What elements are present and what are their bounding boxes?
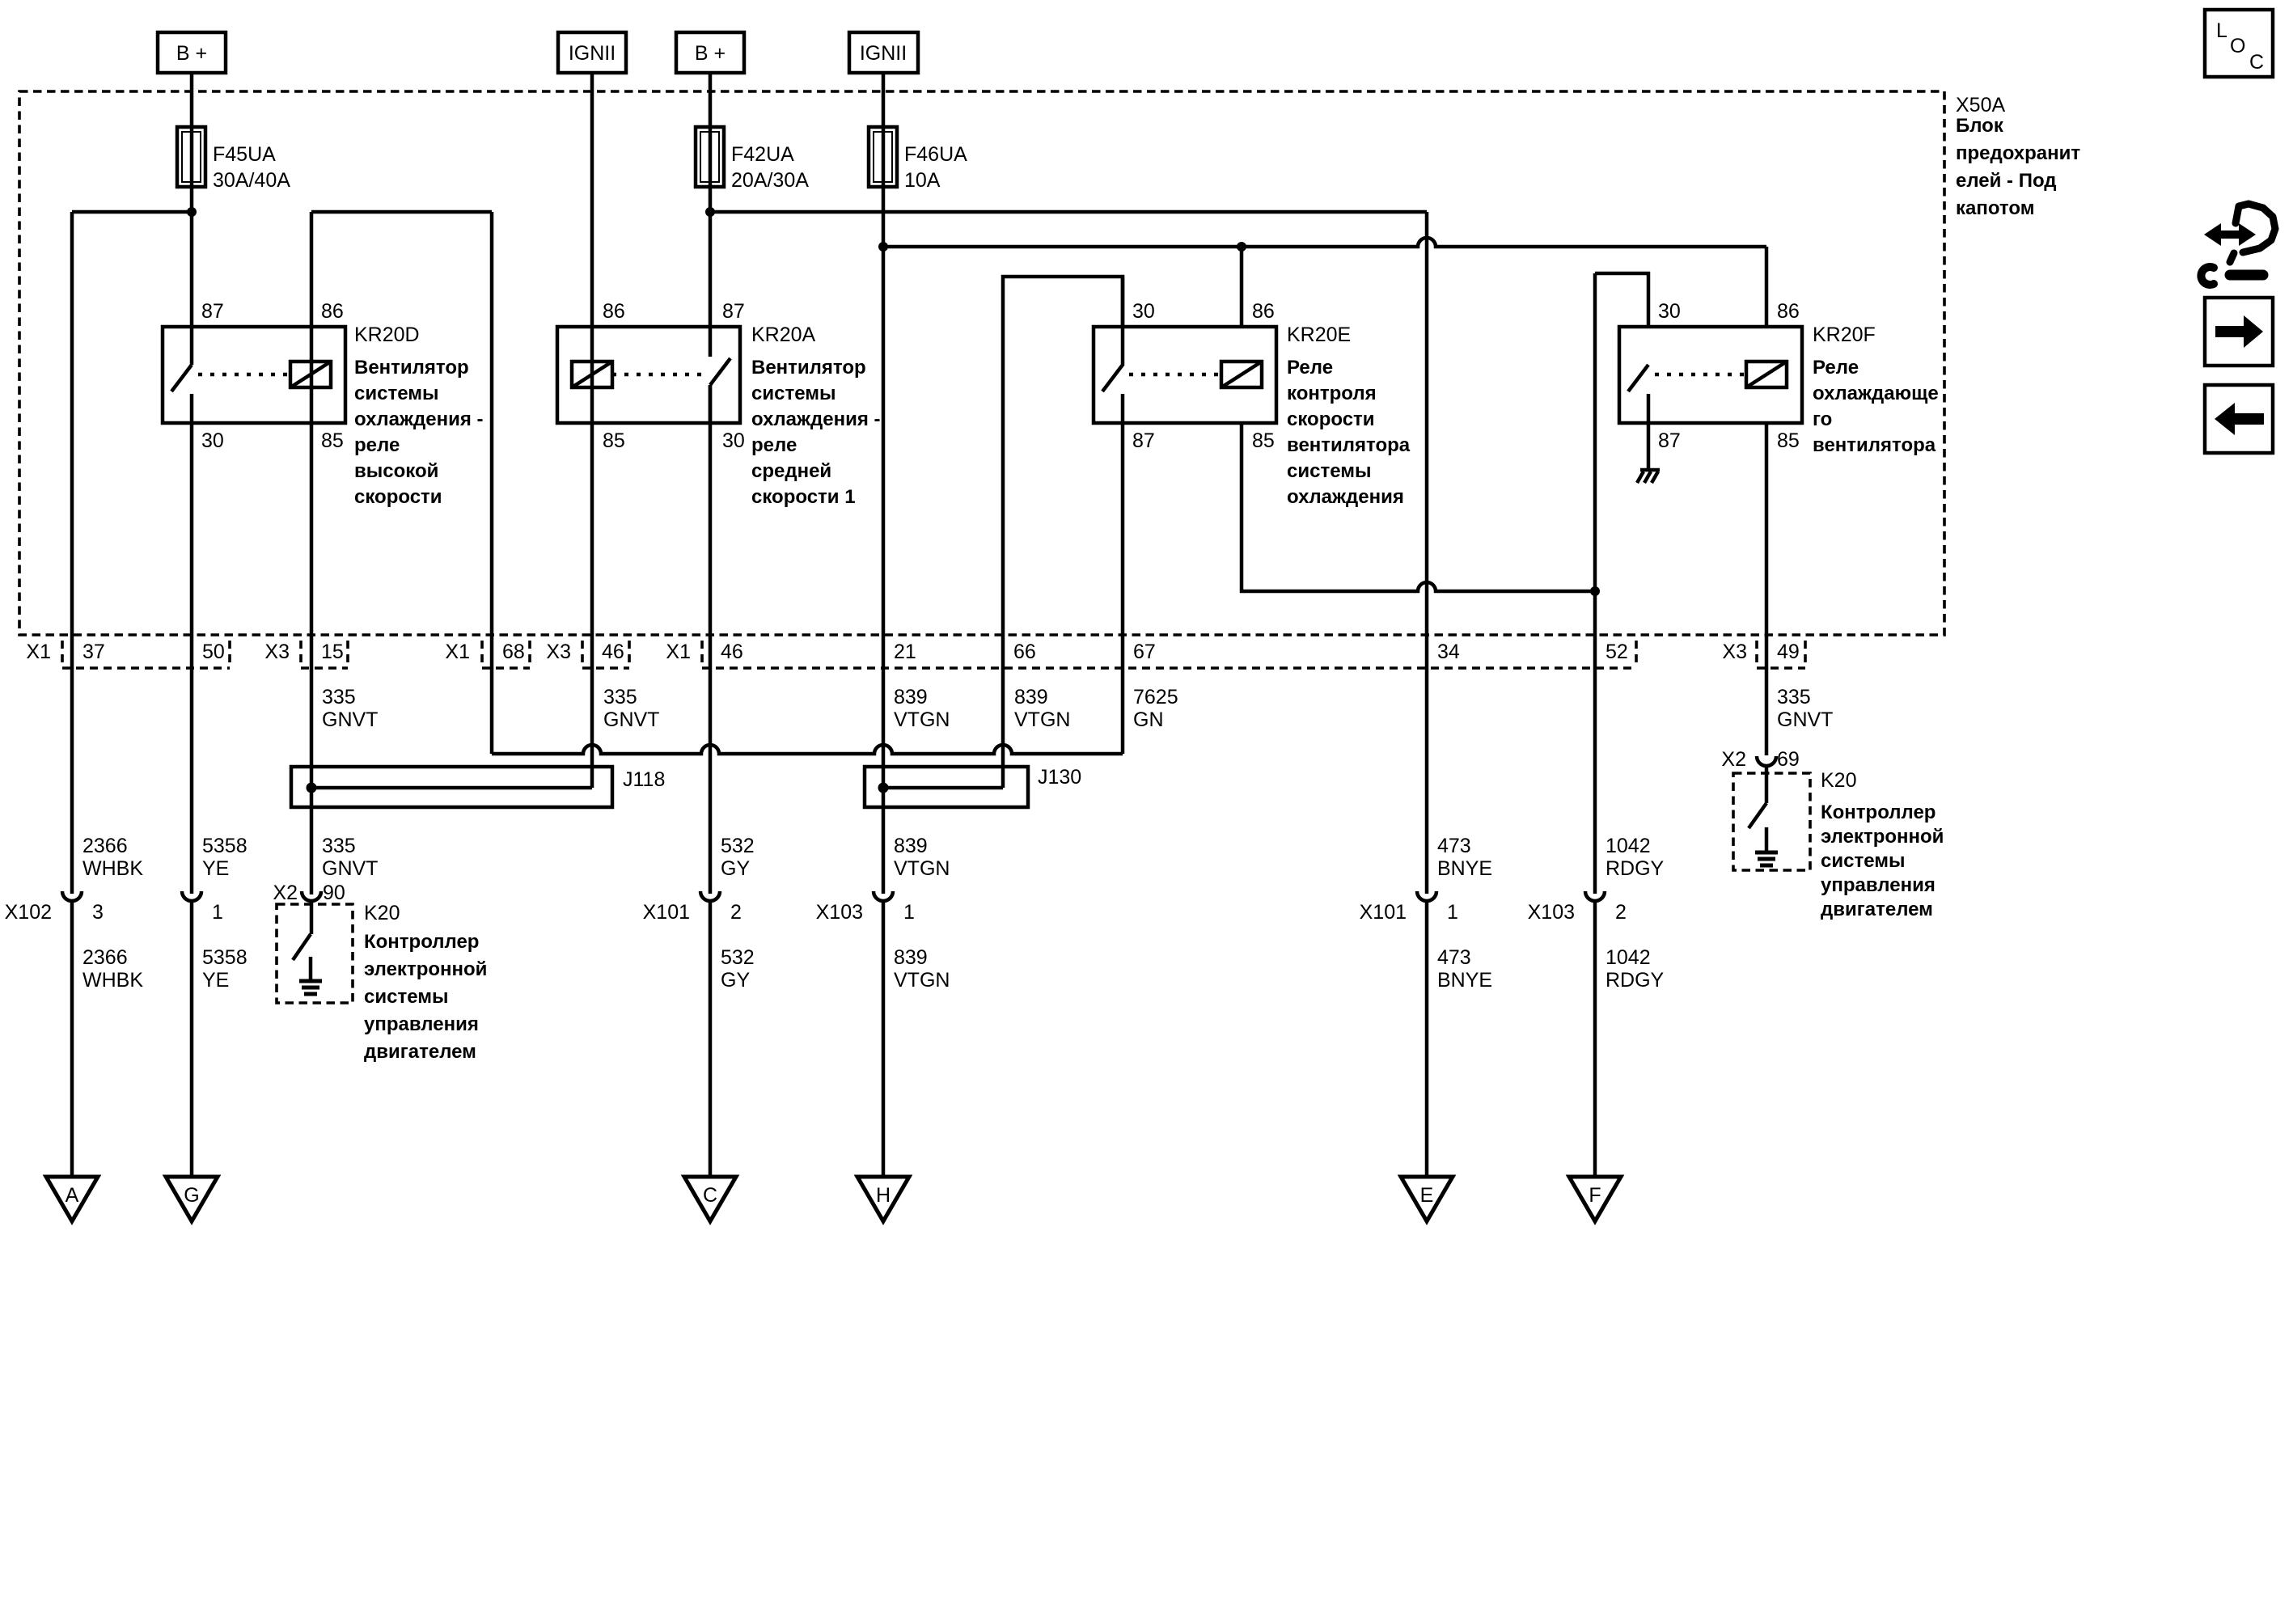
wire J130 inner riser	[1001, 767, 1005, 788]
wire to triangle C	[709, 901, 713, 1178]
svg-text:335: 335	[1777, 686, 1811, 708]
svg-text:GY: GY	[721, 969, 750, 992]
svg-text:YE: YE	[202, 857, 229, 880]
svg-text:50: 50	[202, 641, 225, 663]
svg-text:X102: X102	[5, 901, 52, 924]
triangle E	[1401, 1177, 1453, 1221]
wire IGNII2 drop	[882, 73, 886, 767]
wire H drop	[882, 767, 886, 894]
junction dot wire 52	[1590, 586, 1600, 596]
junction dot F42UA output	[705, 207, 715, 217]
svg-text:Контроллер: Контроллер	[364, 931, 479, 953]
svg-text:473: 473	[1437, 835, 1471, 857]
svg-text:скорости: скорости	[1287, 408, 1375, 430]
svg-text:46: 46	[721, 641, 743, 663]
svg-text:X101: X101	[643, 901, 690, 924]
svg-text:66: 66	[1013, 641, 1036, 663]
svg-text:473: 473	[1437, 946, 1471, 969]
wire KR20D 86 riser	[310, 212, 314, 327]
junction dot KR20E coil tap	[1237, 242, 1246, 252]
wire to triangle H	[882, 901, 886, 1178]
svg-text:X50A: X50A	[1956, 94, 2005, 116]
connector bracket X3 46	[582, 641, 629, 668]
ground K20 right	[1755, 827, 1778, 865]
relay KR20E actuator dotted	[1129, 373, 1221, 377]
svg-text:RDGY: RDGY	[1606, 969, 1665, 992]
svg-text:15: 15	[321, 641, 344, 663]
wire to triangle E	[1425, 901, 1429, 1178]
svg-text:двигателем: двигателем	[364, 1041, 476, 1063]
svg-text:системы: системы	[1821, 850, 1905, 872]
wire KR20D-86 to X1-68 feed	[311, 210, 492, 214]
label K20 left	[364, 902, 487, 1063]
svg-text:KR20A: KR20A	[751, 324, 816, 346]
icon arrow right box	[2205, 298, 2273, 366]
svg-text:O: O	[2230, 35, 2245, 57]
bottom connector labels	[5, 901, 1627, 924]
svg-text:F45UA: F45UA	[213, 143, 276, 166]
svg-text:69: 69	[1777, 748, 1800, 771]
relay KR20D pins	[201, 300, 344, 452]
ground KR20F-87	[1637, 470, 1660, 483]
svg-text:капотом: капотом	[1956, 197, 2034, 219]
wire KR20F coil 86 drop	[1765, 247, 1769, 327]
label KR20D	[354, 324, 484, 508]
wire to triangle G	[190, 901, 194, 1178]
triangle A	[46, 1177, 98, 1221]
wire KR20A-85 drop to J118	[590, 327, 594, 788]
icon arrow left box	[2205, 385, 2273, 453]
svg-text:системы: системы	[364, 986, 448, 1008]
connector cup X103-1	[874, 891, 893, 901]
wire branch to X1-37	[72, 210, 192, 214]
svg-text:GY: GY	[721, 857, 750, 880]
svg-text:C: C	[703, 1184, 717, 1207]
svg-text:J130: J130	[1038, 766, 1081, 789]
svg-text:30A/40A: 30A/40A	[213, 169, 290, 192]
loc box	[2205, 10, 2273, 77]
svg-text:Реле: Реле	[1287, 357, 1333, 379]
svg-text:1: 1	[212, 901, 223, 924]
wire KR20F-30 loop	[1595, 273, 1648, 327]
svg-text:WHBK: WHBK	[82, 857, 143, 880]
svg-text:Реле: Реле	[1813, 357, 1859, 379]
svg-text:86: 86	[603, 300, 625, 323]
svg-text:X1: X1	[445, 641, 470, 663]
svg-text:1042: 1042	[1606, 835, 1651, 857]
connector cup X2-69	[1757, 756, 1776, 766]
wire KR20E coil 86 riser	[1240, 247, 1244, 327]
connector bracket X3 15	[301, 641, 348, 668]
wire B+2 to KR20A pin 87	[709, 73, 713, 357]
svg-text:системы: системы	[1287, 460, 1371, 482]
connector cup X2-90	[302, 891, 321, 901]
wire line B IGNII2 net with hop	[883, 238, 1766, 247]
svg-text:охлаждения: охлаждения	[1287, 486, 1404, 508]
node B+ #2	[676, 32, 744, 73]
wire to triangle F	[1593, 901, 1597, 1178]
splice J130	[865, 766, 1081, 807]
svg-text:го: го	[1813, 408, 1832, 430]
svg-text:RDGY: RDGY	[1606, 857, 1665, 880]
svg-text:высокой: высокой	[354, 460, 438, 482]
svg-text:елей - Под: елей - Под	[1956, 170, 2057, 192]
svg-text:30: 30	[201, 429, 224, 452]
junction dot F45UA output	[187, 207, 197, 217]
svg-text:68: 68	[502, 641, 525, 663]
svg-text:KR20F: KR20F	[1813, 324, 1876, 346]
svg-text:GNVT: GNVT	[603, 708, 659, 731]
svg-text:электронной: электронной	[364, 958, 487, 980]
svg-text:839: 839	[1014, 686, 1048, 708]
svg-text:контроля: контроля	[1287, 383, 1377, 404]
label KR20F	[1813, 324, 1939, 456]
triangle C	[684, 1177, 736, 1221]
svg-text:X3: X3	[1722, 641, 1747, 663]
svg-text:VTGN: VTGN	[894, 857, 950, 880]
svg-text:46: 46	[602, 641, 624, 663]
svg-text:2366: 2366	[82, 835, 128, 857]
svg-text:86: 86	[1252, 300, 1275, 323]
svg-text:30: 30	[722, 429, 745, 452]
ecm K20 left dashed box	[277, 904, 353, 1003]
ecm K20 left switch	[293, 934, 311, 960]
svg-text:J118: J118	[623, 768, 665, 791]
svg-text:30: 30	[1658, 300, 1681, 323]
relay KR20F actuator dotted	[1655, 373, 1746, 377]
connector bracket X1 68	[482, 641, 530, 668]
fuse F46UA	[869, 127, 967, 192]
relay KR20A switch	[710, 358, 730, 423]
relay KR20E coil	[1221, 362, 1262, 387]
connector cup X101-1	[1417, 891, 1436, 901]
svg-text:1: 1	[903, 901, 915, 924]
svg-text:X2: X2	[1721, 748, 1746, 771]
svg-text:IGNII: IGNII	[569, 42, 616, 65]
wire 34 drop E	[1425, 212, 1429, 894]
svg-text:Контроллер: Контроллер	[1821, 801, 1936, 823]
svg-text:X1: X1	[26, 641, 51, 663]
relay KR20D switch	[171, 365, 192, 423]
svg-text:85: 85	[1252, 429, 1275, 452]
svg-text:C: C	[2249, 51, 2264, 74]
ground K20 left	[299, 957, 322, 994]
svg-text:86: 86	[321, 300, 344, 323]
svg-text:двигателем: двигателем	[1821, 899, 1933, 920]
svg-text:X3: X3	[546, 641, 571, 663]
svg-text:21: 21	[894, 641, 916, 663]
svg-text:52: 52	[1606, 641, 1628, 663]
triangle H	[857, 1177, 909, 1221]
svg-text:2: 2	[1615, 901, 1627, 924]
wire X2-90 into K20	[310, 900, 314, 934]
relay KR20E switch	[1102, 277, 1123, 423]
svg-text:BNYE: BNYE	[1437, 857, 1492, 880]
svg-text:YE: YE	[202, 969, 229, 992]
svg-text:87: 87	[201, 300, 224, 323]
svg-text:VTGN: VTGN	[894, 708, 950, 731]
svg-text:X101: X101	[1360, 901, 1407, 924]
wire KR20E-30 loop	[1003, 277, 1123, 767]
svg-text:X103: X103	[1528, 901, 1575, 924]
wire 68 drop	[490, 212, 494, 754]
svg-text:335: 335	[603, 686, 637, 708]
svg-text:реле: реле	[354, 434, 400, 456]
relay KR20F coil	[1746, 362, 1787, 387]
svg-text:7625: 7625	[1133, 686, 1178, 708]
svg-text:GNVT: GNVT	[1777, 708, 1833, 731]
junction dot IGNII2 net	[878, 242, 888, 252]
svg-text:KR20E: KR20E	[1287, 324, 1351, 346]
svg-text:Вентилятор: Вентилятор	[751, 357, 866, 379]
svg-text:охлаждения -: охлаждения -	[751, 408, 881, 430]
svg-text:GN: GN	[1133, 708, 1164, 731]
svg-text:Вентилятор: Вентилятор	[354, 357, 469, 379]
svg-text:WHBK: WHBK	[82, 969, 143, 992]
svg-text:90: 90	[323, 882, 345, 904]
svg-text:G: G	[184, 1184, 199, 1207]
svg-text:H: H	[876, 1184, 891, 1207]
wire 52 drop F	[1593, 273, 1597, 894]
svg-text:реле: реле	[751, 434, 797, 456]
ecm K20 right switch	[1749, 803, 1766, 828]
svg-text:85: 85	[1777, 429, 1800, 452]
relay KR20D actuator dotted	[198, 373, 290, 377]
WIRE LABELS lower band 2	[82, 946, 1665, 992]
svg-text:85: 85	[603, 429, 625, 452]
svg-text:GNVT: GNVT	[322, 708, 378, 731]
svg-text:20A/30A: 20A/30A	[731, 169, 809, 192]
svg-text:управления: управления	[1821, 874, 1936, 896]
wire A drop	[70, 212, 74, 894]
svg-text:электронной: электронной	[1821, 826, 1944, 848]
connector bracket X3 49	[1757, 641, 1805, 668]
WIRE LABELS upper band	[322, 686, 1833, 731]
svg-text:335: 335	[322, 686, 356, 708]
svg-text:37: 37	[82, 641, 105, 663]
svg-text:скорости: скорости	[354, 486, 442, 508]
relay KR20D coil	[290, 362, 331, 387]
relay KR20F pins	[1658, 300, 1800, 452]
svg-text:87: 87	[1658, 429, 1681, 452]
svg-text:скорости 1: скорости 1	[751, 486, 856, 508]
fuse block X50A dashed boundary	[19, 91, 1944, 635]
svg-text:L: L	[2216, 19, 2227, 42]
relay KR20A box	[557, 327, 740, 423]
svg-text:K20: K20	[364, 902, 400, 924]
wire X2-69 into K20	[1765, 768, 1769, 803]
connector bracket X1 37/50	[62, 641, 230, 668]
wire KR20D-85 drop 335	[310, 327, 314, 894]
svg-text:5358: 5358	[202, 835, 247, 857]
connector X2-69 labels	[1721, 748, 1799, 771]
svg-text:34: 34	[1437, 641, 1460, 663]
svg-text:управления: управления	[364, 1013, 479, 1035]
svg-text:85: 85	[321, 429, 344, 452]
relay KR20F box	[1619, 327, 1802, 423]
pin labels connector row	[26, 641, 1799, 663]
svg-text:839: 839	[894, 835, 928, 857]
connector bracket X1 multi	[702, 641, 1636, 668]
svg-text:KR20D: KR20D	[354, 324, 420, 346]
relay KR20A pins	[603, 300, 745, 452]
ecm K20 right dashed box	[1733, 773, 1810, 870]
wire KR20E-85 to 52 with hop	[1242, 423, 1595, 591]
svg-text:VTGN: VTGN	[1014, 708, 1070, 731]
svg-text:10A: 10A	[904, 169, 941, 192]
svg-text:вентилятора: вентилятора	[1287, 434, 1411, 456]
svg-text:B +: B +	[176, 42, 207, 65]
wire 7625 GN horizontal with hops	[492, 745, 1123, 754]
svg-text:IGNII: IGNII	[860, 42, 907, 65]
svg-text:средней: средней	[751, 460, 831, 482]
connector cup X103-2	[1585, 891, 1605, 901]
relay KR20A coil	[572, 362, 612, 387]
svg-text:A: A	[66, 1184, 79, 1207]
wire KR20A-30 drop C	[709, 385, 713, 894]
connector cup X101-2	[700, 891, 720, 901]
svg-text:2366: 2366	[82, 946, 128, 969]
svg-text:5358: 5358	[202, 946, 247, 969]
svg-text:87: 87	[722, 300, 745, 323]
svg-text:3: 3	[92, 901, 104, 924]
svg-text:1: 1	[1447, 901, 1458, 924]
svg-text:BNYE: BNYE	[1437, 969, 1492, 992]
triangle F	[1569, 1177, 1621, 1221]
wire KR20D-30 drop G	[190, 423, 194, 894]
svg-text:X1: X1	[666, 641, 691, 663]
wire KR20F-87 ground stub	[1647, 423, 1651, 470]
svg-text:охлаждающе: охлаждающе	[1813, 383, 1939, 404]
fuse F42UA	[696, 127, 809, 192]
connector cup X102-1	[182, 891, 201, 901]
svg-text:839: 839	[894, 686, 928, 708]
svg-text:532: 532	[721, 835, 755, 857]
svg-text:67: 67	[1133, 641, 1156, 663]
svg-text:1042: 1042	[1606, 946, 1651, 969]
svg-text:K20: K20	[1821, 769, 1856, 792]
triangle G	[166, 1177, 218, 1221]
relay KR20F switch	[1628, 365, 1648, 423]
svg-text:предохранит: предохранит	[1956, 142, 2080, 164]
relay KR20A actuator dotted	[612, 373, 704, 377]
node IGNII #2	[849, 32, 918, 73]
svg-text:Блок: Блок	[1956, 115, 2004, 137]
WIRE LABELS lower band 1	[82, 835, 1665, 880]
svg-text:839: 839	[894, 946, 928, 969]
icon wiring route	[2201, 204, 2275, 285]
svg-text:49: 49	[1777, 641, 1800, 663]
svg-text:VTGN: VTGN	[894, 969, 950, 992]
relay KR20E pins	[1132, 300, 1275, 452]
svg-text:охлаждения -: охлаждения -	[354, 408, 484, 430]
label K20 right	[1821, 769, 1944, 920]
svg-text:GNVT: GNVT	[322, 857, 378, 880]
label X50A	[1956, 94, 2080, 219]
svg-text:X2: X2	[273, 882, 298, 904]
connector cup X102-3	[62, 891, 82, 901]
svg-text:335: 335	[322, 835, 356, 857]
relay KR20D box	[163, 327, 345, 423]
relay KR20E box	[1094, 327, 1276, 423]
connector X2-90 labels	[273, 882, 345, 904]
svg-text:87: 87	[1132, 429, 1155, 452]
node B+ #1	[158, 32, 226, 73]
svg-text:F: F	[1589, 1184, 1601, 1207]
svg-text:вентилятора: вентилятора	[1813, 434, 1936, 456]
label KR20E	[1287, 324, 1411, 508]
wire KR20E-87 riser 67	[1121, 423, 1125, 754]
splice J118	[291, 767, 665, 807]
svg-text:532: 532	[721, 946, 755, 969]
svg-text:B +: B +	[695, 42, 726, 65]
node IGNII #1	[558, 32, 626, 73]
svg-text:F42UA: F42UA	[731, 143, 794, 166]
wire line A to 34	[710, 210, 1427, 214]
svg-text:E: E	[1420, 1184, 1434, 1207]
svg-text:30: 30	[1132, 300, 1155, 323]
wire IGNII1 to KR20A-86	[590, 73, 594, 327]
wire B+1 to KR20D pin 87	[190, 73, 194, 365]
label KR20A	[751, 324, 881, 508]
svg-text:86: 86	[1777, 300, 1800, 323]
wire to triangle A	[70, 901, 74, 1178]
svg-text:системы: системы	[751, 383, 836, 404]
svg-text:F46UA: F46UA	[904, 143, 967, 166]
svg-text:X103: X103	[816, 901, 863, 924]
svg-text:системы: системы	[354, 383, 438, 404]
svg-text:2: 2	[730, 901, 742, 924]
svg-text:X3: X3	[264, 641, 290, 663]
wire KR20F-85 drop 49	[1765, 423, 1769, 755]
fuse F45UA	[177, 127, 290, 192]
